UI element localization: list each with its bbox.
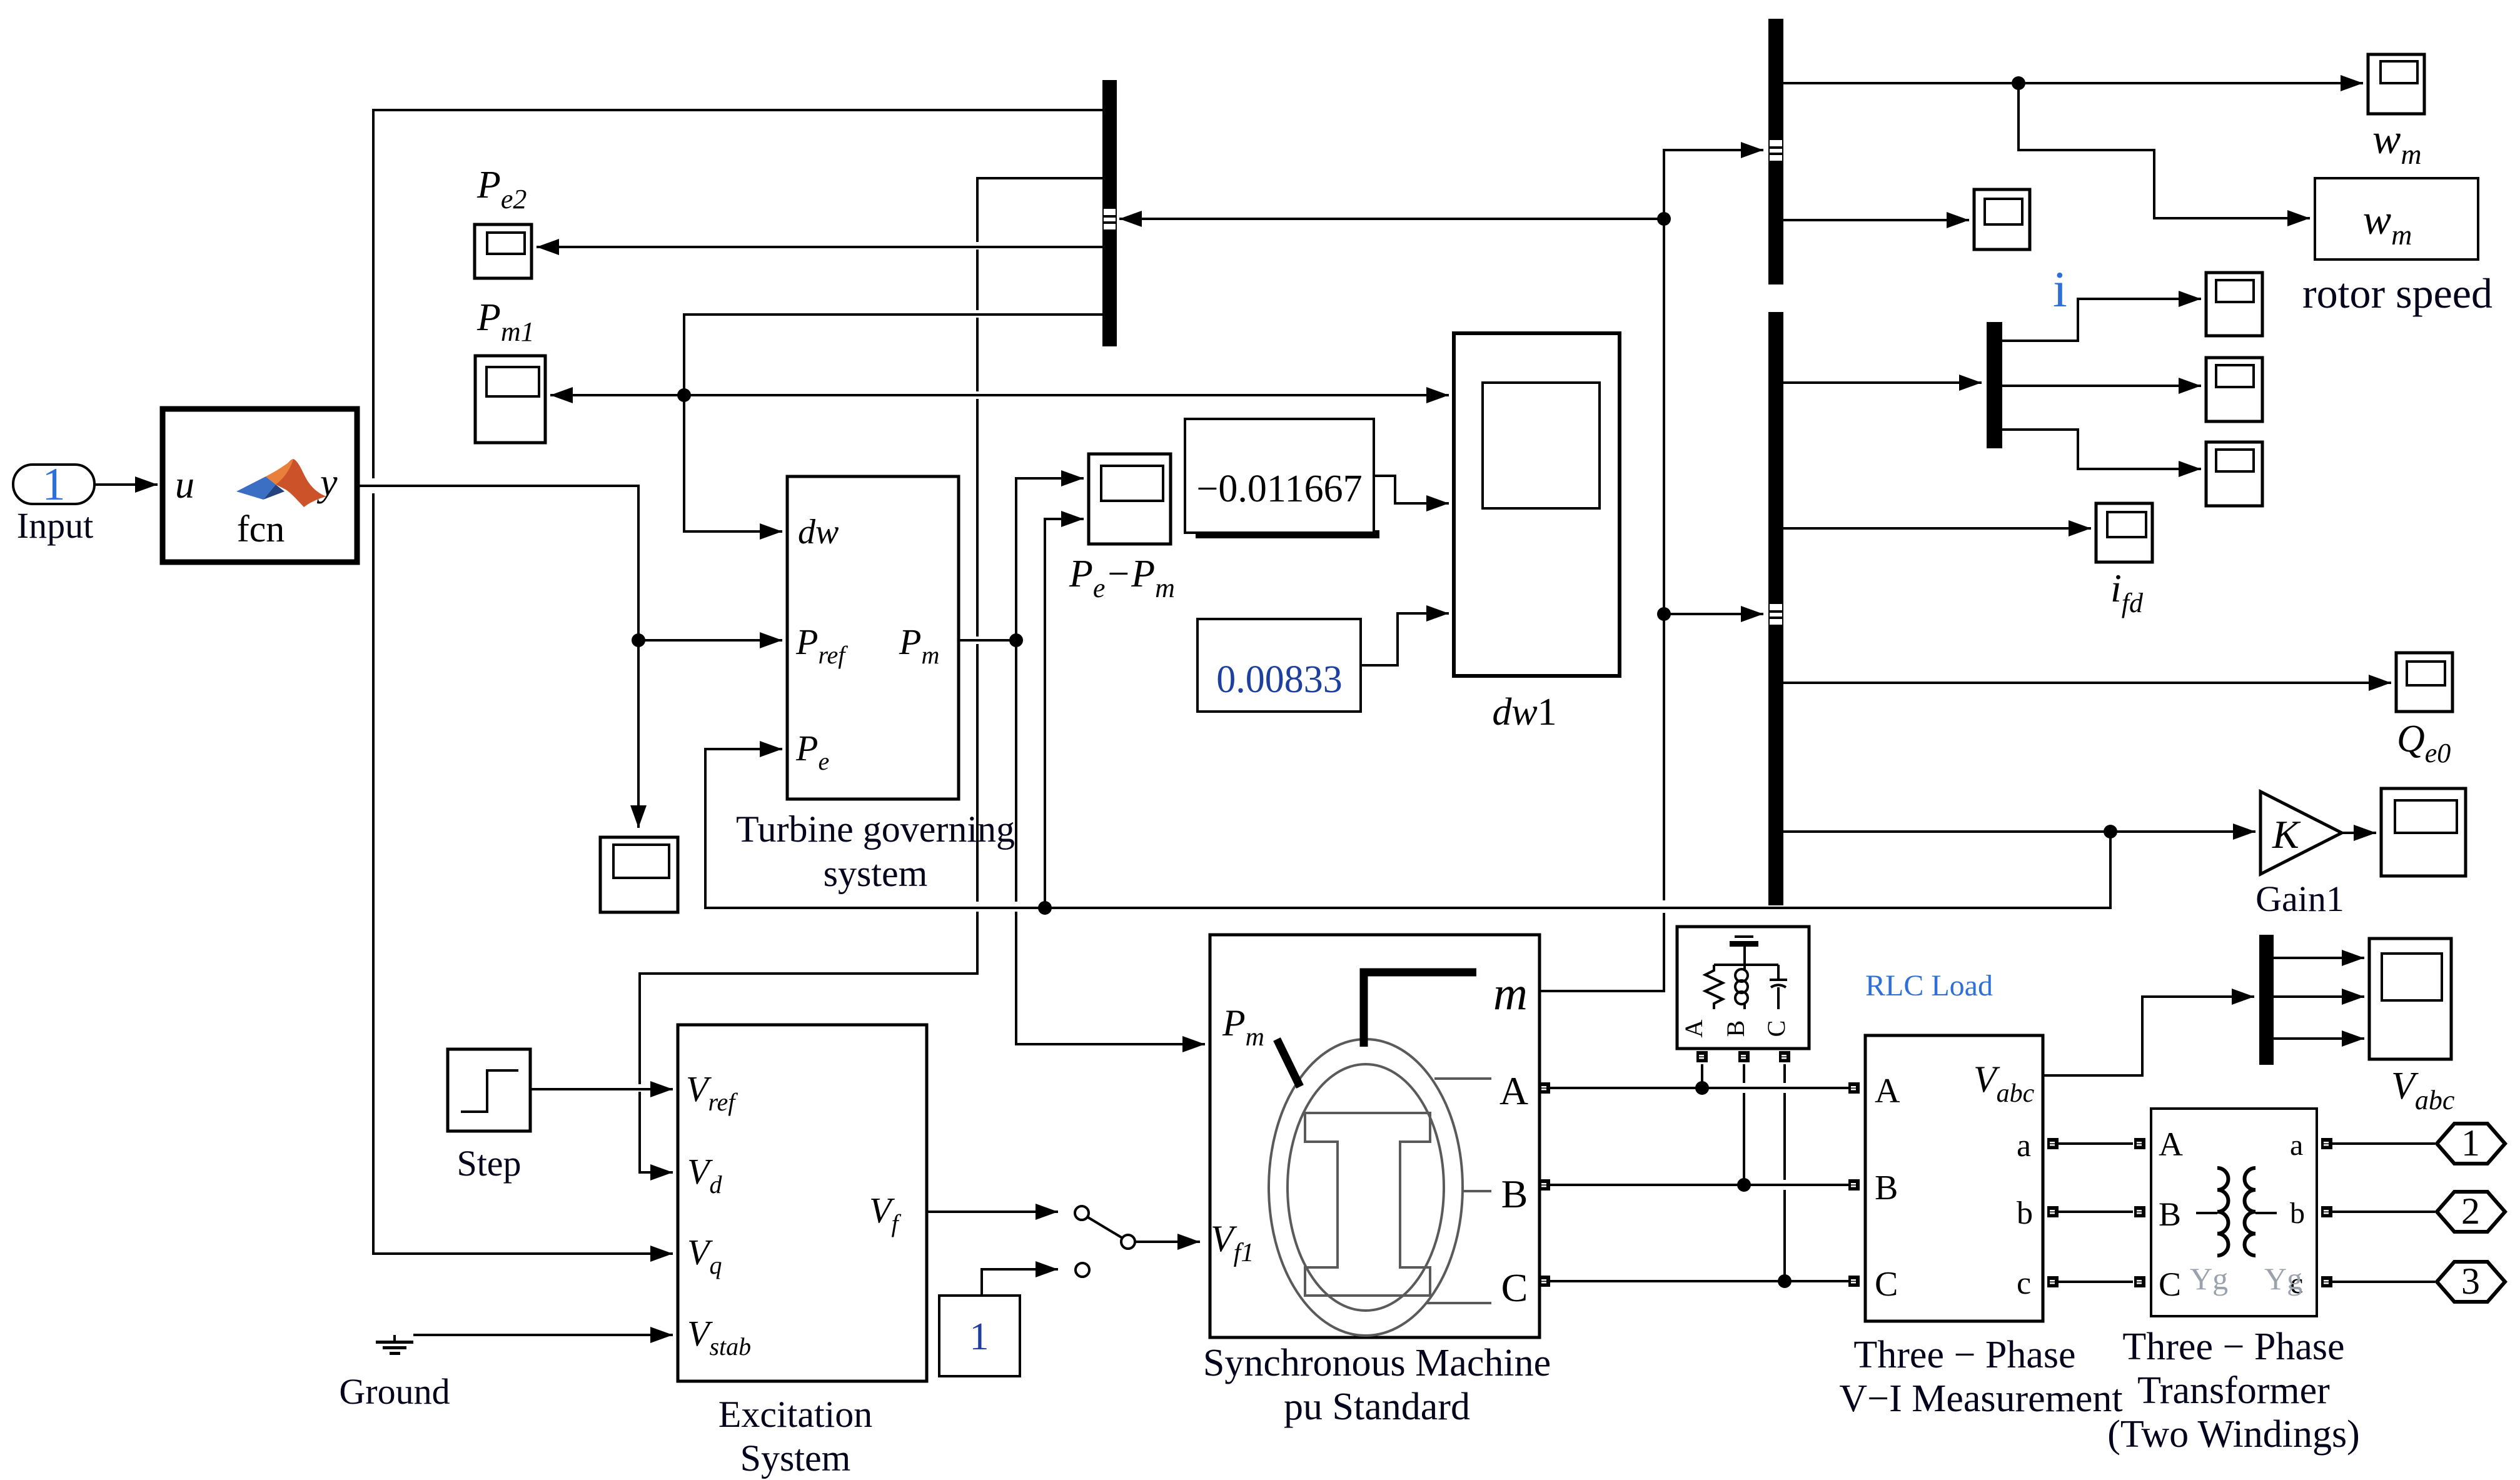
svg-text:a: a [2290,1129,2303,1162]
svg-text:Three − Phase: Three − Phase [2122,1326,2344,1368]
svg-text:A: A [1499,1069,1528,1113]
junction Pe / Gain node [2104,825,2117,838]
wire turbine P_m output [959,639,1016,642]
inport Input oval [13,465,94,504]
svg-text:A: A [2159,1125,2183,1163]
svg-text:b: b [2017,1196,2033,1231]
wire machine A phase wire [1550,1087,1848,1089]
scope w_m [2368,54,2424,114]
svg-text:V−I Measurement: V−I Measurement [1839,1377,2122,1420]
svg-text:1: 1 [970,1316,989,1358]
wire to V_d input [640,1092,673,1172]
wire BAR6 out1 to Vabc scope [2274,957,2364,959]
port square RLC C port [1779,1051,1790,1062]
wire zigzag to rotor-speed block [2019,83,2310,218]
scope Q_e0 scope [2396,653,2452,712]
scope ib scope [2206,358,2262,421]
junction A bus [1695,1081,1709,1095]
svg-text:Input: Input [17,505,93,546]
Step block [448,1049,530,1131]
wire Ground to V_stab input [413,1334,673,1336]
wire node to P_m1 scope [550,394,684,396]
wire vertical x1563 seg4 [976,399,979,637]
Scope block dw1 [1454,333,1620,676]
port square RLC B port [1738,1051,1750,1062]
gain Gain1 triangle [2260,792,2342,874]
svg-text:B: B [1721,1020,1750,1037]
wire Input to fcn u [94,483,158,486]
wire 0.00833 out to dw1 input3 [1361,613,1449,665]
port square machine C out [1539,1276,1550,1287]
wire fcn y output down to scope [357,486,638,828]
machine thick L callout [1364,972,1476,1047]
port square V-I b out [2047,1206,2059,1217]
outport hexagon 3 [2437,1261,2505,1302]
Ground symbol [376,1335,413,1355]
wire P_m down seg1 [1015,640,1017,902]
wire BAR6 out3 to Vabc scope [2274,1037,2364,1040]
wire BAR3 out4 to Gain1 [1783,830,2255,833]
wire RLC C stub seg3 [1783,1190,1786,1281]
Three-Phase Transformer block [2151,1109,2317,1316]
scope unnamed below Pref [600,837,678,912]
wire BAR5 out3 zigzag to scope [2002,430,2201,469]
machine gray stubs A B C [1427,1079,1491,1303]
svg-text:1: 1 [2461,1122,2480,1164]
port square RLC A port [1696,1051,1708,1062]
scope P_m1 [475,356,545,443]
svg-text:1: 1 [43,459,66,510]
RLC Load block [1677,927,1809,1049]
svg-text:Three − Phase: Three − Phase [1853,1334,2075,1376]
port square transformer c out [2321,1276,2332,1287]
port square machine B out [1539,1179,1550,1191]
wire BAR1 port2 corner upper [977,178,1102,242]
junction w_m branch [2012,76,2025,90]
RLC top rail [1714,964,1778,966]
junction B bus [1737,1178,1751,1192]
scope ia scope [2206,273,2262,336]
svg-text:u: u [175,464,194,506]
scope Gain1 scope [2381,788,2466,876]
svg-text:Step: Step [456,1143,521,1184]
wire const 1 up to switch [982,1269,1058,1296]
wire RLC C stub seg2 [1783,1093,1786,1180]
wire b to B wire [2059,1211,2133,1213]
svg-text:i: i [2053,261,2067,318]
RLC resistor R [1705,965,1723,1009]
Turbine governing system block [787,476,959,799]
junction P_m1 node [677,388,691,402]
wire BAR3 out2 to i_fd scope [1783,527,2091,530]
Three-Phase V-I Measurement block [1865,1035,2043,1321]
wire c to outport3 [2332,1281,2435,1283]
Constant block -0.011667 with shadow [1185,419,1379,538]
port square transformer C in [2134,1276,2145,1287]
port square transformer B in [2134,1206,2145,1217]
svg-text:B: B [1501,1172,1528,1216]
svg-text:K: K [2272,812,2301,857]
machine outer ellipse [1269,1039,1463,1336]
wire branch to P_ref input [638,639,782,642]
svg-text:pu Standard: pu Standard [1284,1386,1470,1428]
svg-text:fcn: fcn [237,508,285,550]
svg-text:C: C [2159,1266,2181,1303]
port square V-I c out [2047,1276,2059,1287]
RLC ground symbol [1730,935,1758,965]
svg-text:dw: dw [798,513,839,551]
wire jog to x1023 down [640,912,977,1084]
svg-text:B: B [1875,1169,1898,1207]
port square V-I a out [2047,1138,2059,1149]
Constant block 1 [939,1296,1020,1376]
svg-text:System: System [740,1437,851,1479]
outport hexagon 1 [2437,1122,2505,1164]
svg-text:A: A [1875,1072,1900,1110]
machine I-beam [1305,1113,1430,1296]
wire a to A wire [2059,1142,2133,1145]
wire machine C phase wire [1550,1280,1848,1282]
scope P_e2 [475,224,532,278]
wire Vabc out to BAR6 [2043,997,2254,1075]
svg-text:B: B [2159,1196,2181,1233]
svg-text:a: a [2017,1128,2031,1164]
mux/demux bar BAR1 demux top-center [1102,80,1117,346]
junction fcn-out / P_ref [632,633,645,647]
svg-text:Transformer: Transformer [2137,1369,2330,1412]
svg-text:system: system [824,853,928,894]
wire BAR6 out2 to Vabc scope [2274,995,2364,998]
machine m output wire stub [1540,990,1550,992]
Synchronous Machine block [1210,935,1540,1337]
junction P_m node [1009,633,1023,647]
wire vertical x597 lower to V_q input [373,493,673,1254]
svg-text:Gain1: Gain1 [2255,878,2344,919]
wire Gain1 out to scope [2342,832,2376,834]
svg-text:Turbine governing: Turbine governing [736,808,1015,850]
wire P_e feedback long wire to turbine P_e [705,749,2110,908]
wire BAR5 out2 to scope [2002,385,2201,387]
svg-text:Ground: Ground [339,1371,450,1412]
wire m node to BAR3 input [1664,613,1763,615]
port square V-I A in [1848,1082,1860,1094]
port square transformer A in [2134,1138,2145,1149]
wire BAR1 port1 to vertical x597 upper [373,110,1102,478]
junction C bus [1778,1274,1792,1288]
wire node to dw1 input1 [684,394,1449,396]
junction Pe wire tap [1038,901,1052,915]
wire b to outport2 [2332,1211,2435,1213]
junction m to BAR1/BAR2 [1657,212,1671,226]
wire BAR1 port3 to P_e2 scope [537,246,1102,248]
svg-text:A: A [1680,1019,1708,1037]
manual switch [1075,1206,1135,1277]
svg-text:C: C [1501,1266,1528,1310]
wire machine B phase wire [1550,1184,1848,1186]
svg-text:−0.011667: −0.011667 [1196,468,1362,510]
svg-text:Yg: Yg [2190,1261,2228,1296]
svg-text:dw1: dw1 [1492,691,1556,733]
svg-text:b: b [2290,1197,2305,1230]
Excitation System block [678,1025,927,1381]
scope V_abc scope [2369,939,2451,1059]
port square machine A out [1539,1082,1550,1094]
svg-text:(Two Windings): (Two Windings) [2107,1413,2360,1456]
wire c to C wire [2059,1281,2133,1283]
RLC inductor L [1735,965,1748,1009]
RLC capacitor C [1770,965,1787,1009]
wire m signal left into BAR1 input [1119,218,1664,220]
MATLAB Function block fcn [163,409,357,562]
port square V-I C in [1848,1276,1860,1287]
wire machine m out up seg1 [1540,913,1664,991]
mux/demux bar BAR2 demux top-right [1768,19,1783,284]
MATLAB logo [236,459,326,507]
transformer stubs [2196,1212,2277,1214]
wire BAR5 out1 zigzag to scope [2002,299,2201,341]
port square V-I B in [1848,1179,1860,1191]
wire switch to V_f1 input [1135,1241,1200,1243]
wire vertical x1563 seg2 [976,249,979,310]
wire BAR2 out1 to w_m scope [1783,82,2363,84]
svg-text:3: 3 [2461,1261,2480,1302]
scope ic scope [2206,442,2262,506]
mux/demux bar BAR3 demux right [1768,312,1783,905]
wire BAR1 port4 to node [684,315,1102,395]
port square transformer a out [2321,1138,2332,1149]
wire vertical x1563 seg3 [976,318,979,391]
wire P_m up to Pe-Pm scope input1 [1016,478,1084,640]
wire RLC C stub seg1 [1783,1064,1786,1083]
svg-text:2: 2 [2461,1191,2480,1232]
wire m vertical up to BAR2 input [1664,150,1763,900]
wire BAR3 out1 to BAR5 [1783,381,1982,384]
wire BAR2 out2 to scope [1783,219,1969,221]
block w_m rotor speed [2315,178,2478,259]
wire RLC B stub seg2 [1743,1093,1745,1185]
wire node down to turbine dw input [684,395,782,531]
port square transformer b out [2321,1206,2332,1217]
Constant block 0.00833 [1197,619,1361,712]
machine inner ellipse [1288,1064,1444,1311]
outport hexagon 2 [2437,1191,2505,1232]
svg-text:C: C [1875,1265,1898,1304]
svg-text:Excitation: Excitation [718,1394,873,1435]
wire RLC B stub seg1 [1743,1064,1745,1083]
scope i_fd scope [2096,503,2152,562]
svg-text:Synchronous Machine: Synchronous Machine [1203,1342,1551,1384]
svg-text:m: m [1493,967,1528,1020]
svg-text:0.00833: 0.00833 [1216,658,1343,701]
wire P_m to machine Pm input [1016,912,1205,1044]
machine Pm callout stroke [1277,1039,1300,1087]
mux/demux bar BAR6 mux Vabc [2259,935,2274,1065]
scope unnamed right [1974,189,2030,249]
svg-text:Yg: Yg [2264,1261,2302,1296]
wire a to outport1 [2332,1142,2435,1145]
transformer right winding [2245,1168,2256,1256]
wire vertical x1563 seg5 [976,644,979,902]
wire RLC A stub [1701,1064,1703,1088]
transformer left winding [2217,1168,2229,1256]
wire BAR3 out3 to Q_e0 scope [1783,682,2391,684]
junction m to BAR3 [1657,607,1671,621]
wire V_f to switch [927,1211,1058,1213]
wire Step to V_ref input [530,1088,673,1090]
svg-text:rotor speed: rotor speed [2302,269,2492,317]
svg-text:C: C [1762,1020,1790,1037]
wire tap up to Pe-Pm scope input2 [1045,519,1084,908]
svg-text:c: c [2017,1266,2031,1301]
scope P_e-P_m [1089,454,1171,544]
wire -0.011667 out to dw1 input2 [1374,476,1449,503]
svg-text:RLC Load: RLC Load [1865,969,1993,1002]
mux/demux bar BAR5 mux small i [1987,322,2002,448]
